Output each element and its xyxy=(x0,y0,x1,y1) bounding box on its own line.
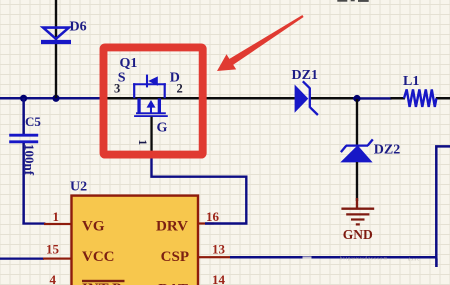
watermark: faint patch over bus xyxy=(303,256,312,259)
svg-text:13: 13 xyxy=(212,241,226,256)
svg-text:4: 4 xyxy=(50,272,57,285)
wire: right-edge net to CSP (navy) xyxy=(230,146,450,257)
svg-text:U2: U2 xyxy=(70,180,87,195)
svg-text:h t t p w w w d z s c c o m: h t t p w w w d z s c c o m xyxy=(340,256,388,261)
wire: C5 bottom down and right to pin 1 (navy) xyxy=(22,143,25,225)
transistor Q1 body diode arrow (points left) xyxy=(148,76,158,85)
node: junction dot (D6 tap) xyxy=(52,95,59,102)
svg-text:VCC: VCC xyxy=(82,249,115,265)
svg-text:C5: C5 xyxy=(25,114,41,129)
wire: junction down to DZ2 (black) xyxy=(356,99,358,145)
ic U2 body xyxy=(72,196,199,285)
transistor Q1 substrate arrow (points up) xyxy=(147,100,156,108)
svg-text:DZ1: DZ1 xyxy=(292,68,318,83)
inductor L1 coil xyxy=(404,89,436,107)
svg-text:INT P: INT P xyxy=(82,281,121,285)
svg-text:d z s c: d z s c xyxy=(408,257,419,262)
pin 16 (DRV) line xyxy=(198,222,214,224)
svg-text:15: 15 xyxy=(46,241,60,256)
svg-text:GND: GND xyxy=(343,227,373,242)
ground GND symbol xyxy=(341,198,374,224)
svg-text:2: 2 xyxy=(177,82,183,96)
transistor Q1 gate bar xyxy=(134,115,168,117)
diode DZ2 (zener, points up) xyxy=(340,145,372,162)
wire: pin 15 from left edge (navy) xyxy=(0,258,44,260)
transistor Q1 channel bar xyxy=(136,112,166,114)
wire: stub below corner xyxy=(435,259,438,268)
svg-text:L1: L1 xyxy=(403,74,419,89)
capacitor C5 xyxy=(9,135,38,142)
svg-text:CSP: CSP xyxy=(161,249,189,265)
svg-text:BAT: BAT xyxy=(158,281,188,285)
wire: L1 right pin to edge (black) xyxy=(436,97,450,100)
wire: main horizontal through Q1 and to DZ1 (black) xyxy=(100,97,295,100)
annotation: red highlight rectangle around Q1 xyxy=(104,47,203,154)
transistor Q1 MOSFET body-diode loop xyxy=(133,75,166,99)
wire: D6 vertical from top edge (black) xyxy=(55,0,57,98)
svg-text:16: 16 xyxy=(206,209,220,224)
wire: L1 left pin (black) xyxy=(391,97,406,100)
diode D6 (open triangle + thick cathode bar) xyxy=(41,28,71,42)
wire: main horizontal net left segment (navy) xyxy=(0,97,101,100)
wire: junction to L1 (navy) xyxy=(353,97,392,100)
svg-text:VG: VG xyxy=(82,219,105,235)
svg-text:14: 14 xyxy=(212,272,226,285)
pin 13 (CSP) line xyxy=(198,256,231,258)
cut-off text at top edge xyxy=(337,0,347,2)
svg-text:DRV: DRV xyxy=(156,219,188,235)
svg-text:1: 1 xyxy=(136,140,148,146)
node: junction dot left (C5 tap) xyxy=(20,95,27,102)
annotation: red arrow xyxy=(217,15,304,71)
wire: C5 top connection (navy) xyxy=(22,98,25,135)
wire: DZ1 cathode to junction (black) xyxy=(311,97,355,100)
pin 4 name overline xyxy=(82,280,125,282)
svg-text:DZ2: DZ2 xyxy=(374,143,400,158)
svg-text:G: G xyxy=(157,120,168,135)
pin 1 (VG) line xyxy=(44,223,72,225)
pin 15 (VCC) line xyxy=(43,258,72,260)
svg-text:1: 1 xyxy=(53,209,60,224)
svg-text:D6: D6 xyxy=(70,20,87,35)
node: junction dot (DZ2 tap) xyxy=(353,95,360,102)
diode DZ1 (zener, points right) xyxy=(295,85,309,113)
svg-text:3: 3 xyxy=(114,82,120,96)
svg-text:Q1: Q1 xyxy=(120,56,138,71)
wire: DZ2 to ground (black) xyxy=(356,162,358,201)
wire: gate route to DRV (navy) xyxy=(152,152,247,224)
transistor Q1 channel contacts xyxy=(137,98,140,113)
wire: gate down (black) xyxy=(150,117,152,153)
